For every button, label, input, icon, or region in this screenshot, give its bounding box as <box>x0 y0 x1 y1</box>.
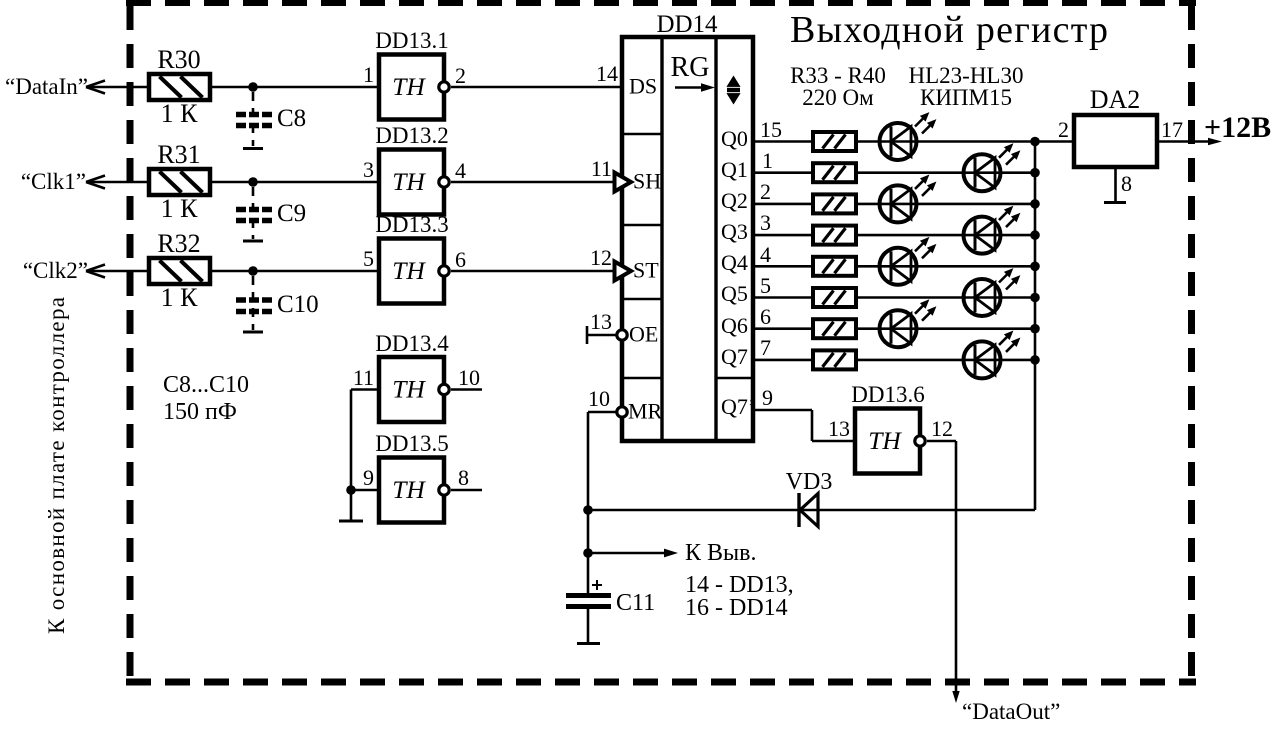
pin OE stub and terminator <box>587 334 617 337</box>
svg-text:11: 11 <box>591 156 612 181</box>
svg-text:DD13.5: DD13.5 <box>375 431 448 456</box>
svg-text:1 К: 1 К <box>161 99 199 128</box>
wire Q4 row <box>753 265 1035 268</box>
wire Q7 row <box>753 359 1035 362</box>
svg-text:16 - DD14: 16 - DD14 <box>685 595 788 621</box>
svg-text:C11: C11 <box>616 590 655 616</box>
svg-text:8: 8 <box>1121 171 1132 196</box>
resistor R35 <box>813 194 856 213</box>
svg-text:R31: R31 <box>157 140 200 169</box>
svg-text:VD3: VD3 <box>786 469 833 495</box>
ground under DA2 <box>1104 201 1126 204</box>
svg-text:13: 13 <box>590 309 612 334</box>
wire Q7' to DD13.6 <box>753 410 855 441</box>
svg-text:Q7: Q7 <box>721 344 748 369</box>
svg-text:1: 1 <box>762 148 773 173</box>
resistor R33 <box>813 132 856 151</box>
svg-text:10: 10 <box>458 365 480 390</box>
junction MR/diode <box>583 505 593 515</box>
wire DataIn input with left arrow <box>86 81 149 94</box>
svg-text:150 пФ: 150 пФ <box>163 399 237 425</box>
wire DD13.4 output stub <box>451 388 482 391</box>
svg-text:Q2: Q2 <box>721 188 748 213</box>
LED HL27 <box>880 238 936 285</box>
svg-text:12: 12 <box>590 245 612 270</box>
svg-text:R32: R32 <box>157 229 200 258</box>
inverter DD13.2 <box>379 150 449 215</box>
svg-text:13: 13 <box>828 416 850 441</box>
register DD14 <box>622 37 753 441</box>
wire bus to DA2 pin 2 <box>1035 140 1074 143</box>
LED HL25 <box>880 175 936 222</box>
wire Clk1 input with left arrow <box>86 176 149 189</box>
resistor R34 <box>813 163 856 182</box>
svg-text:2: 2 <box>455 63 466 88</box>
junction DD13.5 input <box>346 485 356 495</box>
pin 8 wire <box>1114 167 1117 202</box>
svg-text:1 К: 1 К <box>161 194 199 223</box>
svg-text:4: 4 <box>760 242 771 267</box>
pin MR wire <box>588 411 617 414</box>
wire DD13.3 out to ST <box>451 270 617 273</box>
wire Q0 row <box>753 140 1035 143</box>
wire MR net vertical <box>587 412 590 595</box>
ground under C8 <box>243 147 263 150</box>
svg-text:9: 9 <box>762 385 773 410</box>
inverter DD13.5 (unused) <box>379 458 449 523</box>
svg-text:11: 11 <box>353 365 374 390</box>
inverter DD13.1 <box>379 55 449 120</box>
svg-text:10: 10 <box>588 386 610 411</box>
svg-text:220 Ом: 220 Ом <box>802 85 874 110</box>
diode VD3 <box>799 493 818 527</box>
svg-text:“Clk1”: “Clk1” <box>21 169 86 194</box>
resistor R31 <box>149 169 210 195</box>
junction bus Q5 <box>1030 293 1040 303</box>
svg-text:5: 5 <box>760 273 771 298</box>
svg-text:Q3: Q3 <box>721 219 748 244</box>
svg-text:3: 3 <box>363 157 374 182</box>
LED HL24 <box>964 144 1020 191</box>
svg-text:12: 12 <box>931 416 953 441</box>
LED HL28 <box>964 269 1020 316</box>
wire DD13.5 input <box>351 489 379 492</box>
inverter DD13.6 <box>855 409 925 474</box>
junction node C9 tap <box>248 177 258 187</box>
svg-text:C10: C10 <box>277 291 319 318</box>
wire DD13.4 input <box>351 388 379 391</box>
resistor R36 <box>813 226 856 245</box>
svg-text:1: 1 <box>363 62 374 87</box>
svg-text:+12В: +12В <box>1204 111 1271 144</box>
wire diode row <box>588 509 1035 512</box>
svg-text:DD13.2: DD13.2 <box>375 123 448 148</box>
LED HL23 <box>880 113 936 160</box>
junction bus Q6 <box>1030 324 1040 334</box>
ground under C9 <box>243 240 263 243</box>
junction MR/K Vyv <box>583 548 593 558</box>
svg-text:DD13.6: DD13.6 <box>851 382 924 407</box>
svg-text:ST: ST <box>633 258 659 283</box>
resistor R37 <box>813 257 856 276</box>
wire Q5 row <box>753 296 1035 299</box>
junction bus Q2 <box>1030 199 1040 209</box>
capacitor C8 (dashed) <box>236 92 272 146</box>
svg-text:17: 17 <box>1161 117 1183 142</box>
junction bus Q4 <box>1030 262 1040 272</box>
inverter DD13.3 <box>379 239 449 304</box>
svg-text:Q7’: Q7’ <box>721 394 755 419</box>
svg-text:“Clk2”: “Clk2” <box>23 258 88 283</box>
wire Q2 row <box>753 203 1035 206</box>
junction bus Q0 <box>1030 137 1040 147</box>
junction node C10 tap <box>248 266 258 276</box>
svg-text:2: 2 <box>760 179 771 204</box>
svg-text:14: 14 <box>596 61 618 86</box>
ground under C11 <box>577 642 600 645</box>
svg-text:C8...C10: C8...C10 <box>163 372 249 398</box>
LED HL30 <box>964 331 1020 378</box>
inverter DD13.4 (unused) <box>379 357 449 422</box>
wire Clk2 input with left arrow <box>86 265 149 278</box>
junction node C8 tap <box>248 82 258 92</box>
capacitor C11 (polarized) <box>566 580 611 643</box>
svg-text:КИПМ15: КИПМ15 <box>920 85 1012 110</box>
wire DD13.6 out to DataOut <box>927 441 956 698</box>
svg-text:6: 6 <box>455 247 466 272</box>
svg-text:DD14: DD14 <box>656 11 718 38</box>
svg-text:MR: MR <box>628 399 663 424</box>
svg-text:Q1: Q1 <box>721 157 748 182</box>
svg-text:R30: R30 <box>157 45 200 74</box>
capacitor C9 (dashed) <box>236 187 272 239</box>
ground under unused inputs <box>339 520 363 523</box>
svg-text:4: 4 <box>455 158 466 183</box>
svg-text:“DataIn”: “DataIn” <box>5 74 88 99</box>
wire Q6 row <box>753 327 1035 330</box>
svg-text:C8: C8 <box>277 105 306 132</box>
resistor R39 <box>813 319 856 338</box>
wire DD13.5 output stub <box>451 489 482 492</box>
svg-text:Q5: Q5 <box>721 281 748 306</box>
capacitor C10 (dashed) <box>236 276 272 330</box>
svg-text:К основной плате контроллера: К основной плате контроллера <box>44 297 69 634</box>
svg-text:8: 8 <box>458 465 469 490</box>
wire unused inputs to ground <box>350 390 353 521</box>
svg-text:К Выв.: К Выв. <box>685 540 756 566</box>
svg-text:Q0: Q0 <box>721 126 748 151</box>
junction bus Q3 <box>1030 230 1040 240</box>
svg-text:7: 7 <box>760 335 771 360</box>
wire R32 to DD13.3 <box>210 270 379 273</box>
dashed module boundary (decorative frame) <box>126 3 1196 682</box>
svg-text:9: 9 <box>363 465 374 490</box>
svg-text:Q4: Q4 <box>721 250 748 275</box>
resistor R40 <box>813 350 856 369</box>
svg-text:5: 5 <box>363 246 374 271</box>
svg-text:Выходной регистр: Выходной регистр <box>790 9 1108 51</box>
svg-text:Q6: Q6 <box>721 313 748 338</box>
svg-text:DD13.4: DD13.4 <box>375 331 449 356</box>
regulator DA2 <box>1074 115 1157 167</box>
resistor R38 <box>813 288 856 307</box>
svg-text:DD13.1: DD13.1 <box>375 28 448 53</box>
ground under C10 <box>243 331 263 334</box>
wire Q1 row <box>753 171 1035 174</box>
wire +12V output arrow <box>1157 140 1212 143</box>
svg-text:C9: C9 <box>277 200 306 227</box>
svg-text:RG: RG <box>671 52 710 83</box>
wire DD13.2 out to SH <box>451 181 617 184</box>
wire R31 to DD13.2 <box>210 181 379 184</box>
junction bus Q1 <box>1030 168 1040 178</box>
wire R30 to DD13.1 <box>210 86 379 89</box>
resistor R32 <box>149 258 210 284</box>
svg-text:DA2: DA2 <box>1090 85 1141 114</box>
svg-text:“DataOut”: “DataOut” <box>962 699 1060 724</box>
LED HL26 <box>964 207 1020 254</box>
svg-text:DD13.3: DD13.3 <box>375 212 448 237</box>
resistor R30 <box>149 74 210 100</box>
svg-text:15: 15 <box>760 117 782 142</box>
wire К Выв. arrow <box>588 552 670 555</box>
wire DD13.1 out to DS <box>451 86 620 89</box>
svg-text:3: 3 <box>760 210 771 235</box>
svg-text:1 К: 1 К <box>161 283 199 312</box>
svg-text:SH: SH <box>633 169 661 194</box>
svg-text:2: 2 <box>1058 117 1069 142</box>
wire LED bus vertical <box>1034 142 1037 511</box>
svg-text:6: 6 <box>760 304 771 329</box>
wire Q3 row <box>753 234 1035 237</box>
three-state output symbol (diamond) <box>725 76 743 105</box>
svg-text:OE: OE <box>629 322 658 347</box>
svg-text:DS: DS <box>629 74 657 99</box>
junction bus Q7 <box>1030 355 1040 365</box>
LED HL29 <box>880 300 936 347</box>
